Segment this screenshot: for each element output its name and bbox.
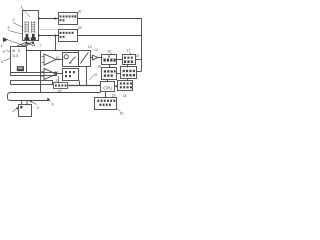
box B [123,55,136,65]
winding column left in box T [25,21,29,33]
vertical D to F [127,79,129,81]
relay box 12 [63,53,79,67]
arrow CPU to F [115,85,118,88]
dark blob element left bottom of box T [24,34,29,40]
box E output wire [90,57,93,59]
vertical box E down [86,67,88,86]
wire rail to box D [137,71,142,73]
winding column right in box T [31,21,35,33]
box C [102,68,117,80]
amp arrow 14 [93,55,99,60]
svg-text:7: 7 [40,44,42,48]
vertical CPU to box 20 [105,92,107,99]
branch vertical from wire29 down [55,36,57,51]
small mark inside B2 [20,106,22,109]
svg-text:19: 19 [112,93,116,97]
op-amp 11 output [56,73,63,75]
box 30 text row 1 [60,15,77,18]
arrow into box 29 [55,34,58,37]
svg-text:20: 20 [120,112,124,116]
leader for label 1 [22,8,31,18]
box D [121,67,137,79]
box 20 text row 1 [97,100,115,102]
box D dots [123,70,135,77]
leader for label 3 [9,31,23,35]
box 2 (below relay) [63,69,79,81]
box B dots [124,57,133,63]
box 29 [59,30,78,42]
box G [54,83,68,89]
svg-text:CPU: CPU [103,86,112,91]
svg-text:30: 30 [78,9,82,13]
op-amp 10 [44,54,56,65]
bottom-left box B2 [19,105,32,117]
svg-text:3: 3 [7,26,9,30]
box C dots [104,70,116,77]
svg-text:5: 5 [3,50,5,54]
vertical A to C [109,64,111,68]
leader 9 to B2 [30,101,37,105]
box L bottom component [17,66,24,71]
svg-text:16: 16 [97,64,101,68]
relay coil circle [64,55,68,59]
vertical C to CPU [107,80,109,82]
arrow into box 30 [55,17,58,20]
vertical box2 down [79,81,81,86]
node dot at start of wire [38,18,40,20]
leader for label 2 [13,23,22,28]
op-amp 10 output [56,59,63,61]
vertical bar1 to box G [58,76,60,84]
stub to bottom-left box [22,101,28,105]
svg-text:4: 4 [1,44,3,48]
right rail vertical [141,19,143,72]
box 20 [95,98,117,110]
arrow 4 (left pointer) [3,37,8,42]
box G dots [55,84,66,86]
op-amp 11 input stubs [41,72,45,77]
left vertical bus x40 [40,51,42,93]
dark blob element right bottom of box T [31,34,36,40]
box 29 text row 2 [60,36,65,38]
bar 1 (long thin box) [11,73,57,76]
svg-text:18: 18 [123,94,127,98]
box E diagonal [80,53,88,64]
box F [118,81,133,91]
svg-text:11 8: 11 8 [12,54,18,58]
box2 dots [65,71,75,77]
box A [102,55,117,65]
box 30 [59,13,78,25]
wire B to right rail [136,59,142,61]
svg-text:14: 14 [94,48,98,52]
arrowheads below box T [25,41,27,44]
vertical B to D [127,65,129,68]
svg-text:21: 21 [136,54,140,58]
CPU box [101,82,115,92]
box F dots [120,82,132,88]
wire box29 to right rail [78,35,142,37]
box 30 text row 2 [60,19,65,21]
box T (top-left component box) [23,11,39,41]
bottom wire 1 [8,93,101,101]
op-amp 10 input stubs [41,57,45,63]
svg-text:2: 2 [13,18,15,22]
faint wire box T to box29 top [39,29,59,31]
relay contact [69,57,76,64]
svg-text:9: 9 [37,106,39,110]
box E [79,51,91,67]
svg-text:8: 8 [52,102,54,106]
node dot at start of wire 29 [38,35,40,37]
svg-text:6: 6 [1,60,3,64]
box 20 text row 2 [99,104,111,106]
box L (tall left box) [11,47,27,73]
wire C to D [117,73,121,75]
box 29 text row 1 [60,32,74,34]
op-amp 11 [44,69,56,80]
wire A to B [117,59,123,61]
wire box30 to right rail [78,18,142,20]
wire box T to box 30 [39,18,59,20]
svg-text:13: 13 [88,45,92,49]
box A glyphs [103,55,115,61]
svg-text:29: 29 [78,26,82,30]
left arrow into B2 [13,108,18,112]
crossing wires between box T and box L [17,42,35,47]
svg-text:22: 22 [94,73,98,77]
horizontal wire y50 [26,50,79,52]
wire into box A [98,57,103,59]
bar 2 (long thin box) [11,81,53,85]
arrow 8 [48,98,51,101]
wire box G to CPU [68,85,100,87]
wire box T to box 29 [39,35,59,37]
